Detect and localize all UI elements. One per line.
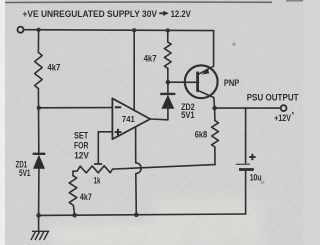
op-amp U1 741 bbox=[112, 98, 150, 139]
wire opamp V+ bbox=[133, 30, 135, 110]
transistor Q1 PNP bbox=[185, 65, 218, 98]
zener ZD2 bbox=[161, 82, 174, 109]
page top edge line bbox=[5, 1, 272, 4]
wire collector drop bbox=[213, 98, 216, 109]
wire ground stub bbox=[38, 215, 40, 230]
capacitor C1 plates bbox=[236, 164, 254, 169]
opamp plus sign bbox=[115, 129, 122, 136]
node opamp V+ tap bbox=[132, 28, 136, 32]
wire feedback bbox=[114, 165, 215, 169]
wire emitter supply drop bbox=[213, 31, 215, 66]
svg-text:4k7: 4k7 bbox=[80, 192, 92, 202]
resistor R1 4k7 left bbox=[35, 53, 43, 89]
resistor R4 4k7 lower bbox=[69, 176, 77, 216]
wire R3 top lead bbox=[214, 108, 216, 120]
wire ZD2 anode bbox=[167, 109, 169, 120]
wire opamp noninverting input bbox=[98, 131, 112, 133]
pot wiper contact bbox=[95, 163, 102, 165]
wire base bbox=[168, 81, 199, 83]
svg-text:FOR: FOR bbox=[74, 141, 89, 151]
node top-left bbox=[36, 28, 40, 32]
wire output bbox=[215, 107, 281, 109]
svg-text:5V1: 5V1 bbox=[181, 110, 195, 120]
page top edge line right fragment bbox=[286, 0, 303, 2]
capacitor C1 branch wire bbox=[245, 108, 247, 163]
capacitor plus sign bbox=[249, 154, 255, 160]
node output bbox=[212, 106, 217, 111]
zener ZD1 bbox=[33, 154, 45, 216]
svg-text:12V: 12V bbox=[74, 150, 89, 160]
node bottom opamp V- bbox=[134, 213, 139, 218]
ground bbox=[31, 231, 49, 239]
opamp minus sign bbox=[115, 106, 121, 108]
speck bbox=[232, 43, 235, 46]
node bottom R4 bbox=[72, 213, 77, 218]
wire left rail upper bbox=[37, 30, 39, 53]
node ref divider bbox=[37, 106, 41, 110]
potentiometer VR1 1k bbox=[73, 166, 114, 173]
svg-text:+VE UNREGULATED SUPPLY 30V: +VE UNREGULATED SUPPLY 30V bbox=[23, 9, 158, 20]
wire bottom rail bbox=[39, 214, 246, 215]
paper smudge bbox=[260, 181, 264, 184]
svg-text:12.2V: 12.2V bbox=[171, 9, 192, 20]
wire pot left to R4 bbox=[72, 171, 74, 176]
svg-text:10u: 10u bbox=[250, 172, 262, 182]
input terminal bbox=[18, 27, 24, 33]
wire top rail bbox=[24, 29, 214, 32]
svg-text:PNP: PNP bbox=[224, 78, 240, 88]
arrow in title bbox=[159, 11, 169, 16]
svg-text:5V1: 5V1 bbox=[19, 168, 31, 178]
wire R2 lower lead bbox=[167, 68, 169, 82]
wire R3 bottom to feedback bbox=[214, 150, 216, 165]
svg-text:1k: 1k bbox=[94, 176, 101, 186]
wire opamp inverting input bbox=[39, 107, 113, 109]
resistor R3 6k8 bbox=[212, 121, 219, 150]
svg-text:741: 741 bbox=[122, 115, 135, 124]
node ground junction bbox=[36, 213, 41, 218]
output terminal bbox=[281, 105, 287, 111]
svg-text:6k8: 6k8 bbox=[195, 129, 208, 139]
node R2 top tap bbox=[166, 28, 170, 32]
svg-text:+12V: +12V bbox=[274, 113, 291, 123]
resistor R2 4k7 top bbox=[164, 31, 171, 69]
svg-text:SET: SET bbox=[74, 131, 89, 141]
svg-text:4k7: 4k7 bbox=[144, 53, 157, 63]
wire wiper to +input bbox=[97, 132, 99, 164]
svg-text:PSU OUTPUT: PSU OUTPUT bbox=[247, 93, 299, 103]
wire opamp V- with hop bbox=[136, 127, 142, 215]
node base drive bbox=[166, 80, 171, 85]
wire C1 bottom lead bbox=[245, 171, 247, 214]
svg-text:4k7: 4k7 bbox=[47, 63, 60, 73]
wire left rail middle bbox=[37, 89, 39, 154]
wire opamp output bbox=[150, 118, 168, 121]
speck after +12V bbox=[292, 112, 294, 115]
